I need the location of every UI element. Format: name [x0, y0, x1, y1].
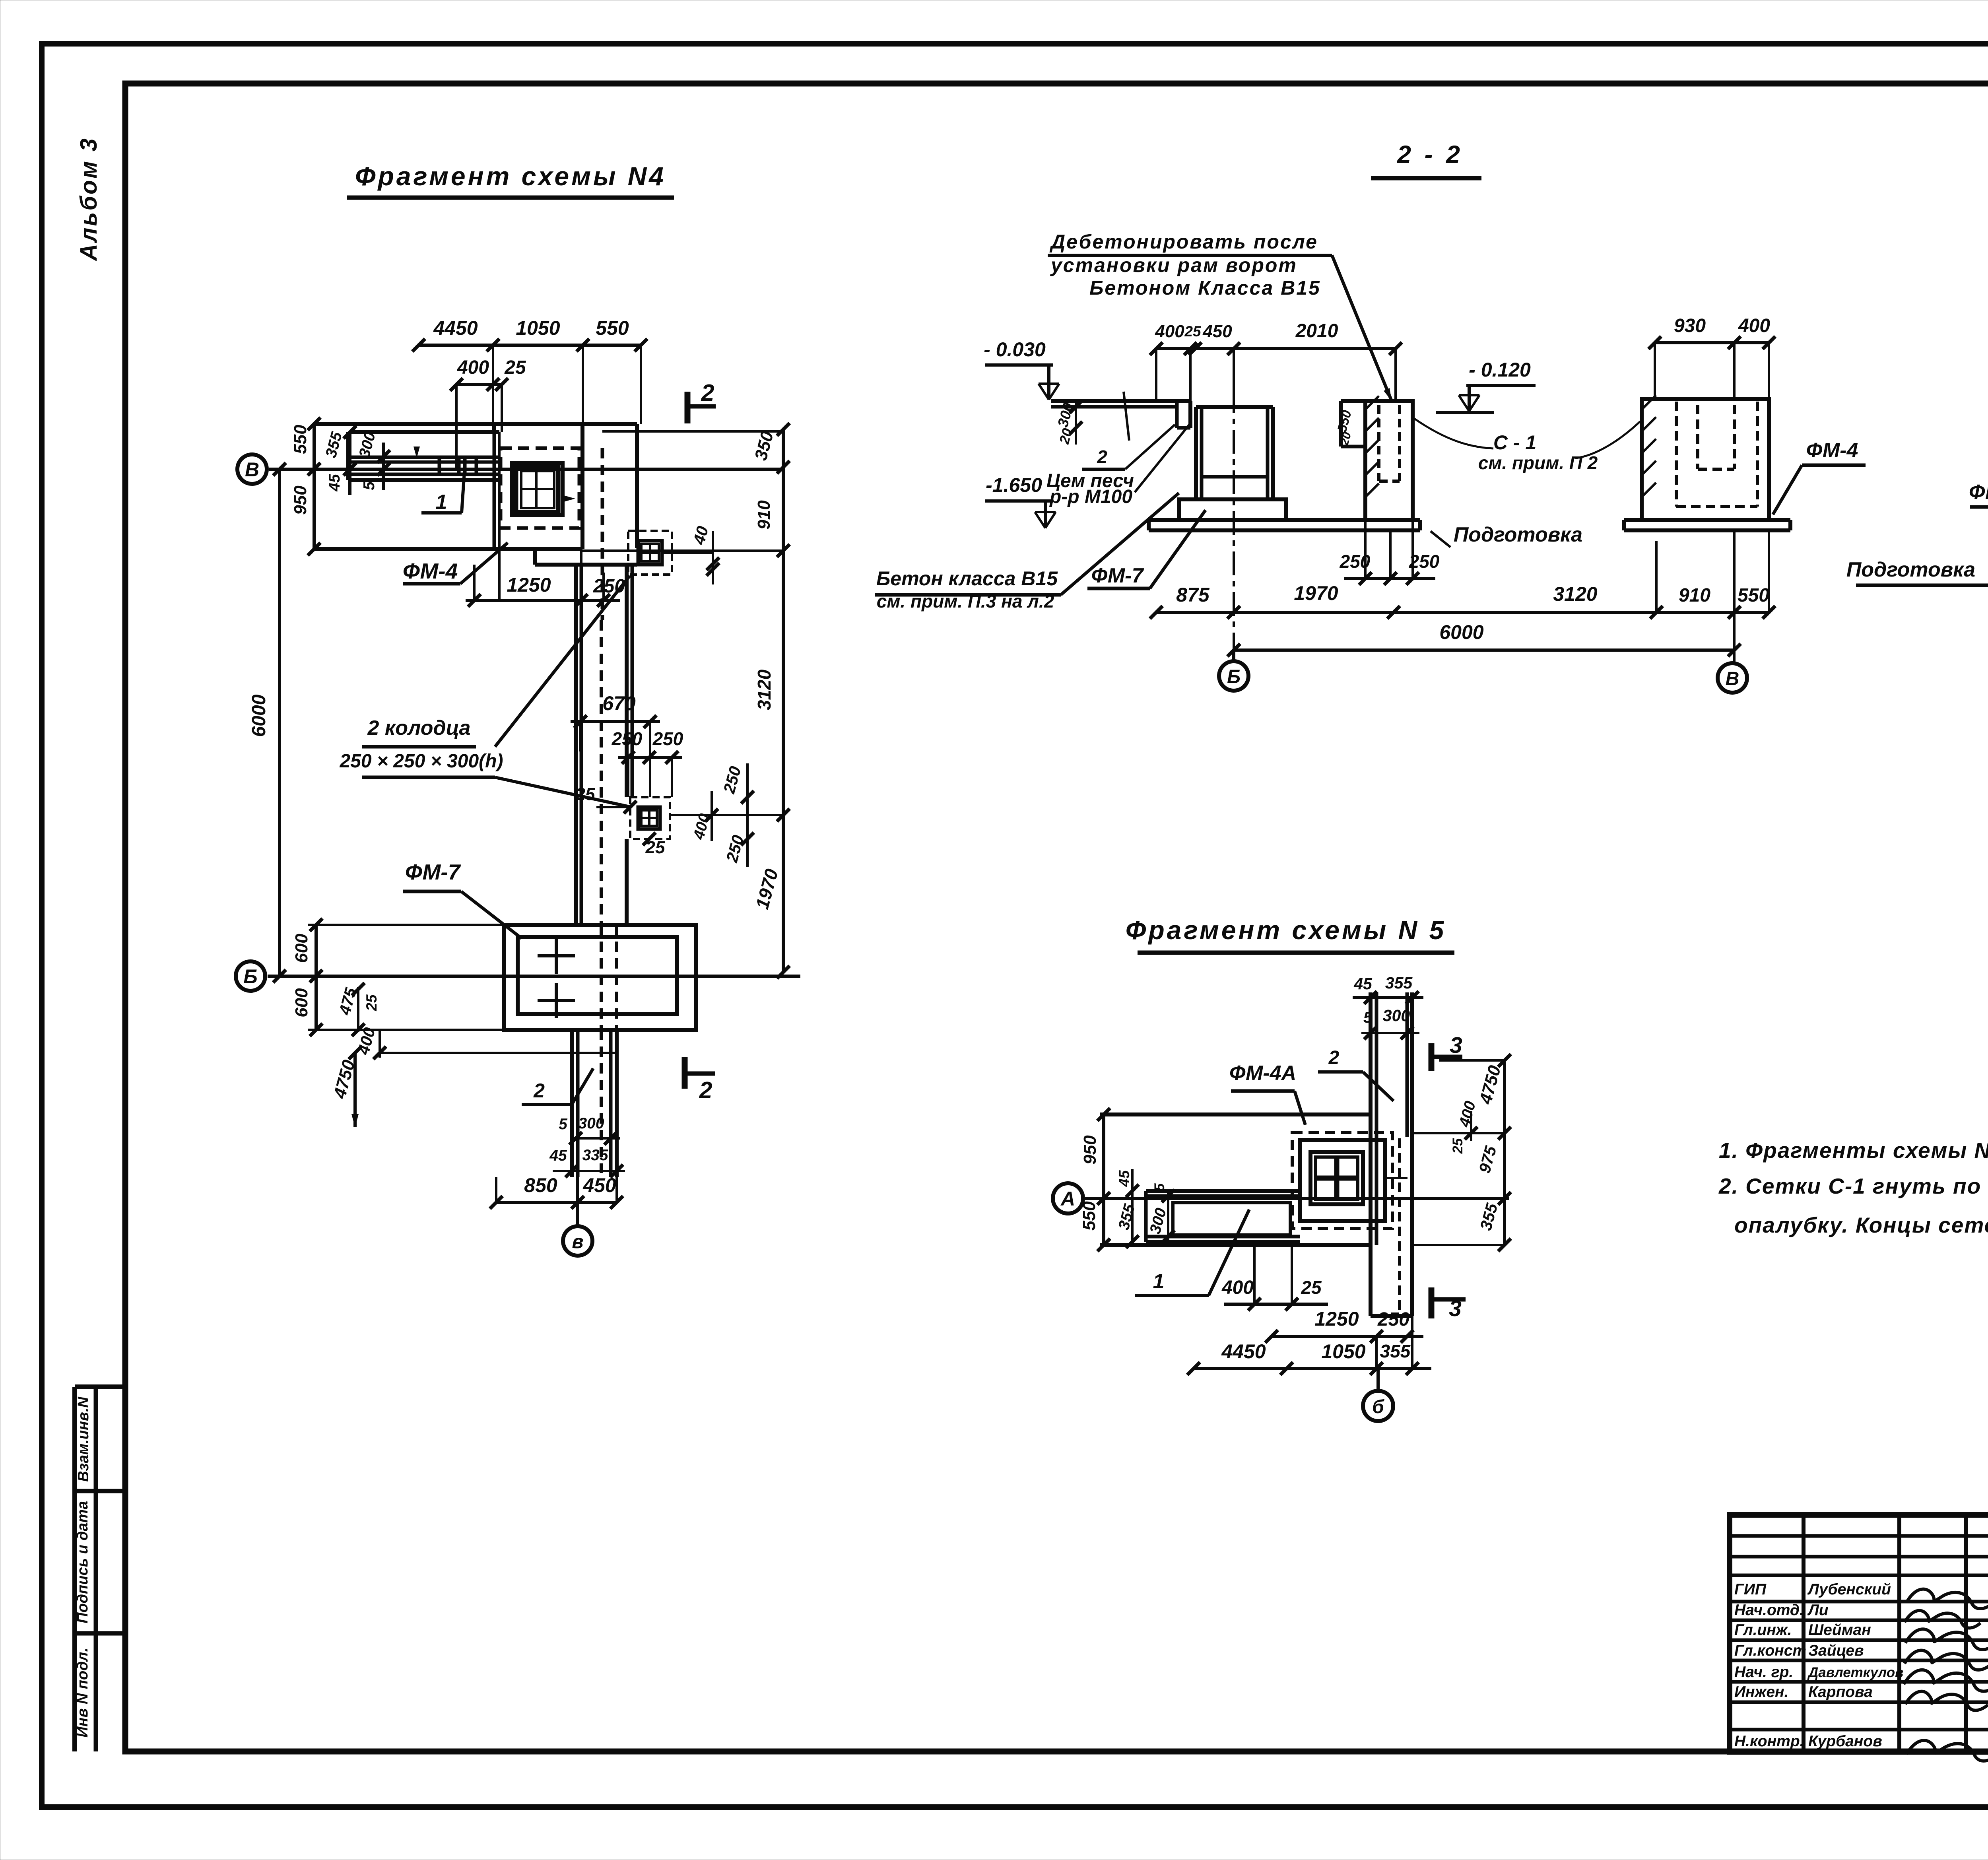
svg-text:Дебетонировать после: Дебетонировать после [1049, 231, 1318, 253]
svg-text:Бетон класса В15: Бетон класса В15 [876, 567, 1058, 590]
svg-text:1970: 1970 [751, 866, 782, 911]
svg-text:45: 45 [1353, 975, 1373, 993]
svg-text:Карпова: Карпова [1808, 1683, 1873, 1701]
svg-text:3120: 3120 [1553, 583, 1597, 605]
svg-text:3: 3 [1449, 1296, 1462, 1321]
svg-text:3120: 3120 [754, 669, 775, 710]
svg-text:355: 355 [1385, 974, 1413, 992]
svg-text:1. Фрагменты схемы N 4; N 5: 1. Фрагменты схемы N 4; N 5 замаркирован… [1719, 1138, 1988, 1163]
svg-text:Б: Б [1227, 666, 1241, 687]
svg-text:см. прим. П 2: см. прим. П 2 [1478, 452, 1598, 473]
svg-text:ФМ-4: ФМ-4 [1806, 439, 1858, 462]
svg-text:установки рам ворот: установки рам ворот [1050, 254, 1297, 276]
svg-text:975: 975 [1475, 1144, 1500, 1175]
svg-text:875: 875 [1176, 584, 1210, 606]
svg-text:25: 25 [1301, 1277, 1322, 1298]
svg-text:300: 300 [356, 430, 379, 459]
svg-text:4750: 4750 [1475, 1063, 1505, 1107]
svg-text:Лубенский: Лубенский [1807, 1581, 1891, 1598]
svg-text:Взам.инв.N: Взам.инв.N [75, 1396, 92, 1482]
svg-text:-1.650: -1.650 [986, 474, 1042, 496]
svg-text:25: 25 [504, 357, 526, 378]
svg-text:400: 400 [457, 357, 489, 378]
svg-text:р-р М100: р-р М100 [1049, 486, 1132, 507]
svg-text:Давлеткулов: Давлеткулов [1807, 1665, 1903, 1680]
svg-text:5: 5 [1152, 1183, 1167, 1191]
svg-text:5: 5 [361, 481, 378, 490]
svg-text:Подготовка: Подготовка [1846, 558, 1975, 581]
svg-text:ГИП: ГИП [1734, 1581, 1767, 1598]
svg-text:250: 250 [1377, 1309, 1409, 1330]
svg-text:45: 45 [549, 1147, 567, 1164]
svg-text:Ли: Ли [1807, 1602, 1829, 1619]
svg-text:350: 350 [751, 429, 777, 462]
svg-text:355: 355 [1476, 1201, 1501, 1232]
svg-text:1: 1 [436, 491, 447, 514]
svg-text:2: 2 [701, 380, 714, 406]
svg-text:4450: 4450 [433, 317, 478, 339]
svg-text:1250: 1250 [1314, 1308, 1359, 1330]
svg-text:Шейман: Шейман [1808, 1621, 1871, 1639]
svg-text:250 × 250 × 300(h): 250 × 250 × 300(h) [340, 751, 503, 772]
svg-text:550: 550 [1079, 1201, 1099, 1231]
svg-text:450: 450 [1202, 322, 1232, 341]
svg-text:400: 400 [1221, 1277, 1254, 1298]
svg-text:2: 2 [1097, 447, 1107, 467]
svg-text:Фрагмент схемы N 5: Фрагмент схемы N 5 [1126, 915, 1446, 945]
svg-text:Гл.конст: Гл.конст [1734, 1642, 1806, 1659]
svg-text:25: 25 [363, 994, 380, 1012]
svg-text:Нач. гр.: Нач. гр. [1734, 1664, 1793, 1681]
svg-text:550: 550 [1334, 408, 1354, 433]
svg-text:45: 45 [326, 474, 343, 492]
svg-text:- 0.030: - 0.030 [984, 338, 1046, 361]
svg-text:25: 25 [1450, 1138, 1466, 1154]
svg-text:300: 300 [578, 1115, 604, 1132]
svg-text:3: 3 [1450, 1033, 1462, 1058]
svg-text:ФМ-7: ФМ-7 [1091, 564, 1144, 587]
svg-text:400: 400 [1155, 322, 1184, 341]
svg-text:Н.контр.: Н.контр. [1734, 1733, 1804, 1750]
svg-text:Курбанов: Курбанов [1808, 1733, 1882, 1750]
svg-text:930: 930 [1674, 315, 1706, 336]
svg-text:2: 2 [1328, 1047, 1340, 1068]
svg-text:400: 400 [1738, 315, 1770, 336]
svg-text:25: 25 [575, 784, 595, 804]
svg-text:2010: 2010 [1295, 320, 1338, 342]
svg-text:1050: 1050 [1321, 1340, 1365, 1363]
svg-text:В: В [1726, 668, 1739, 689]
svg-text:ФМ-4А: ФМ-4А [1229, 1062, 1296, 1085]
svg-text:5: 5 [559, 1116, 568, 1133]
svg-text:1050: 1050 [516, 317, 560, 339]
svg-text:1250: 1250 [507, 574, 551, 596]
svg-text:Гл.инж.: Гл.инж. [1734, 1621, 1792, 1639]
svg-text:6000: 6000 [1439, 621, 1483, 643]
svg-text:2: 2 [533, 1079, 545, 1102]
svg-text:Инжен.: Инжен. [1734, 1683, 1788, 1701]
svg-text:550: 550 [291, 425, 310, 454]
svg-text:Нач.отд.: Нач.отд. [1734, 1602, 1804, 1619]
svg-text:4450: 4450 [1221, 1340, 1266, 1363]
svg-text:355: 355 [322, 430, 346, 460]
svg-text:Альбом 3: Альбом 3 [76, 137, 102, 262]
svg-text:850: 850 [524, 1174, 557, 1196]
svg-text:600: 600 [292, 988, 311, 1017]
svg-text:Подпись и дата: Подпись и дата [74, 1501, 91, 1623]
svg-text:А: А [1060, 1188, 1075, 1210]
svg-text:в: в [572, 1231, 584, 1252]
svg-text:355: 355 [1115, 1202, 1139, 1232]
svg-text:670: 670 [602, 692, 636, 714]
svg-text:В: В [245, 458, 259, 481]
svg-text:2 - 2: 2 - 2 [1397, 141, 1463, 169]
svg-text:Бетоном Класса В15: Бетоном Класса В15 [1089, 277, 1321, 299]
svg-text:опалубку. Концы сеток сварит: опалубку. Концы сеток сварить между собо… [1734, 1213, 1988, 1237]
svg-text:Подготовка: Подготовка [1454, 523, 1582, 546]
svg-text:45: 45 [1116, 1170, 1132, 1187]
svg-text:- 0.120: - 0.120 [1469, 359, 1531, 381]
svg-text:2. Сетки С-1 гнуть по мест: 2. Сетки С-1 гнуть по месту при установк… [1718, 1174, 1988, 1198]
svg-text:б: б [1372, 1396, 1384, 1417]
svg-text:250: 250 [652, 728, 683, 749]
svg-text:400: 400 [1456, 1099, 1479, 1129]
svg-text:550: 550 [596, 317, 629, 339]
svg-text:ФМ-4А: ФМ-4А [1969, 481, 1988, 504]
svg-text:ФМ-7: ФМ-7 [405, 860, 461, 884]
svg-text:250: 250 [722, 833, 747, 864]
svg-text:6000: 6000 [248, 694, 270, 737]
svg-text:600: 600 [292, 934, 311, 963]
svg-text:950: 950 [291, 485, 310, 515]
svg-text:25: 25 [1184, 323, 1202, 340]
svg-text:550: 550 [1738, 585, 1769, 606]
svg-text:355: 355 [1380, 1341, 1411, 1361]
svg-text:335: 335 [582, 1147, 608, 1164]
svg-text:1970: 1970 [1294, 582, 1338, 604]
svg-text:2 колодца: 2 колодца [367, 716, 471, 740]
svg-text:см. прим. П.3 на л.2: см. прим. П.3 на л.2 [877, 591, 1054, 612]
svg-text:ФМ-4: ФМ-4 [403, 559, 458, 583]
svg-text:950: 950 [1080, 1135, 1100, 1165]
svg-text:Зайцев: Зайцев [1808, 1642, 1864, 1659]
svg-text:1: 1 [1153, 1270, 1165, 1293]
svg-text:Инв N подл.: Инв N подл. [74, 1648, 91, 1738]
svg-text:250: 250 [720, 764, 744, 796]
svg-text:300: 300 [1147, 1206, 1170, 1235]
svg-text:40: 40 [689, 524, 712, 547]
svg-text:Фрагмент схемы N4: Фрагмент схемы N4 [355, 161, 666, 191]
svg-text:Б: Б [243, 965, 257, 988]
svg-text:С - 1: С - 1 [1493, 431, 1536, 454]
svg-text:910: 910 [754, 500, 774, 530]
svg-text:250: 250 [612, 728, 643, 749]
svg-text:910: 910 [1679, 585, 1710, 606]
svg-text:2: 2 [699, 1077, 712, 1103]
